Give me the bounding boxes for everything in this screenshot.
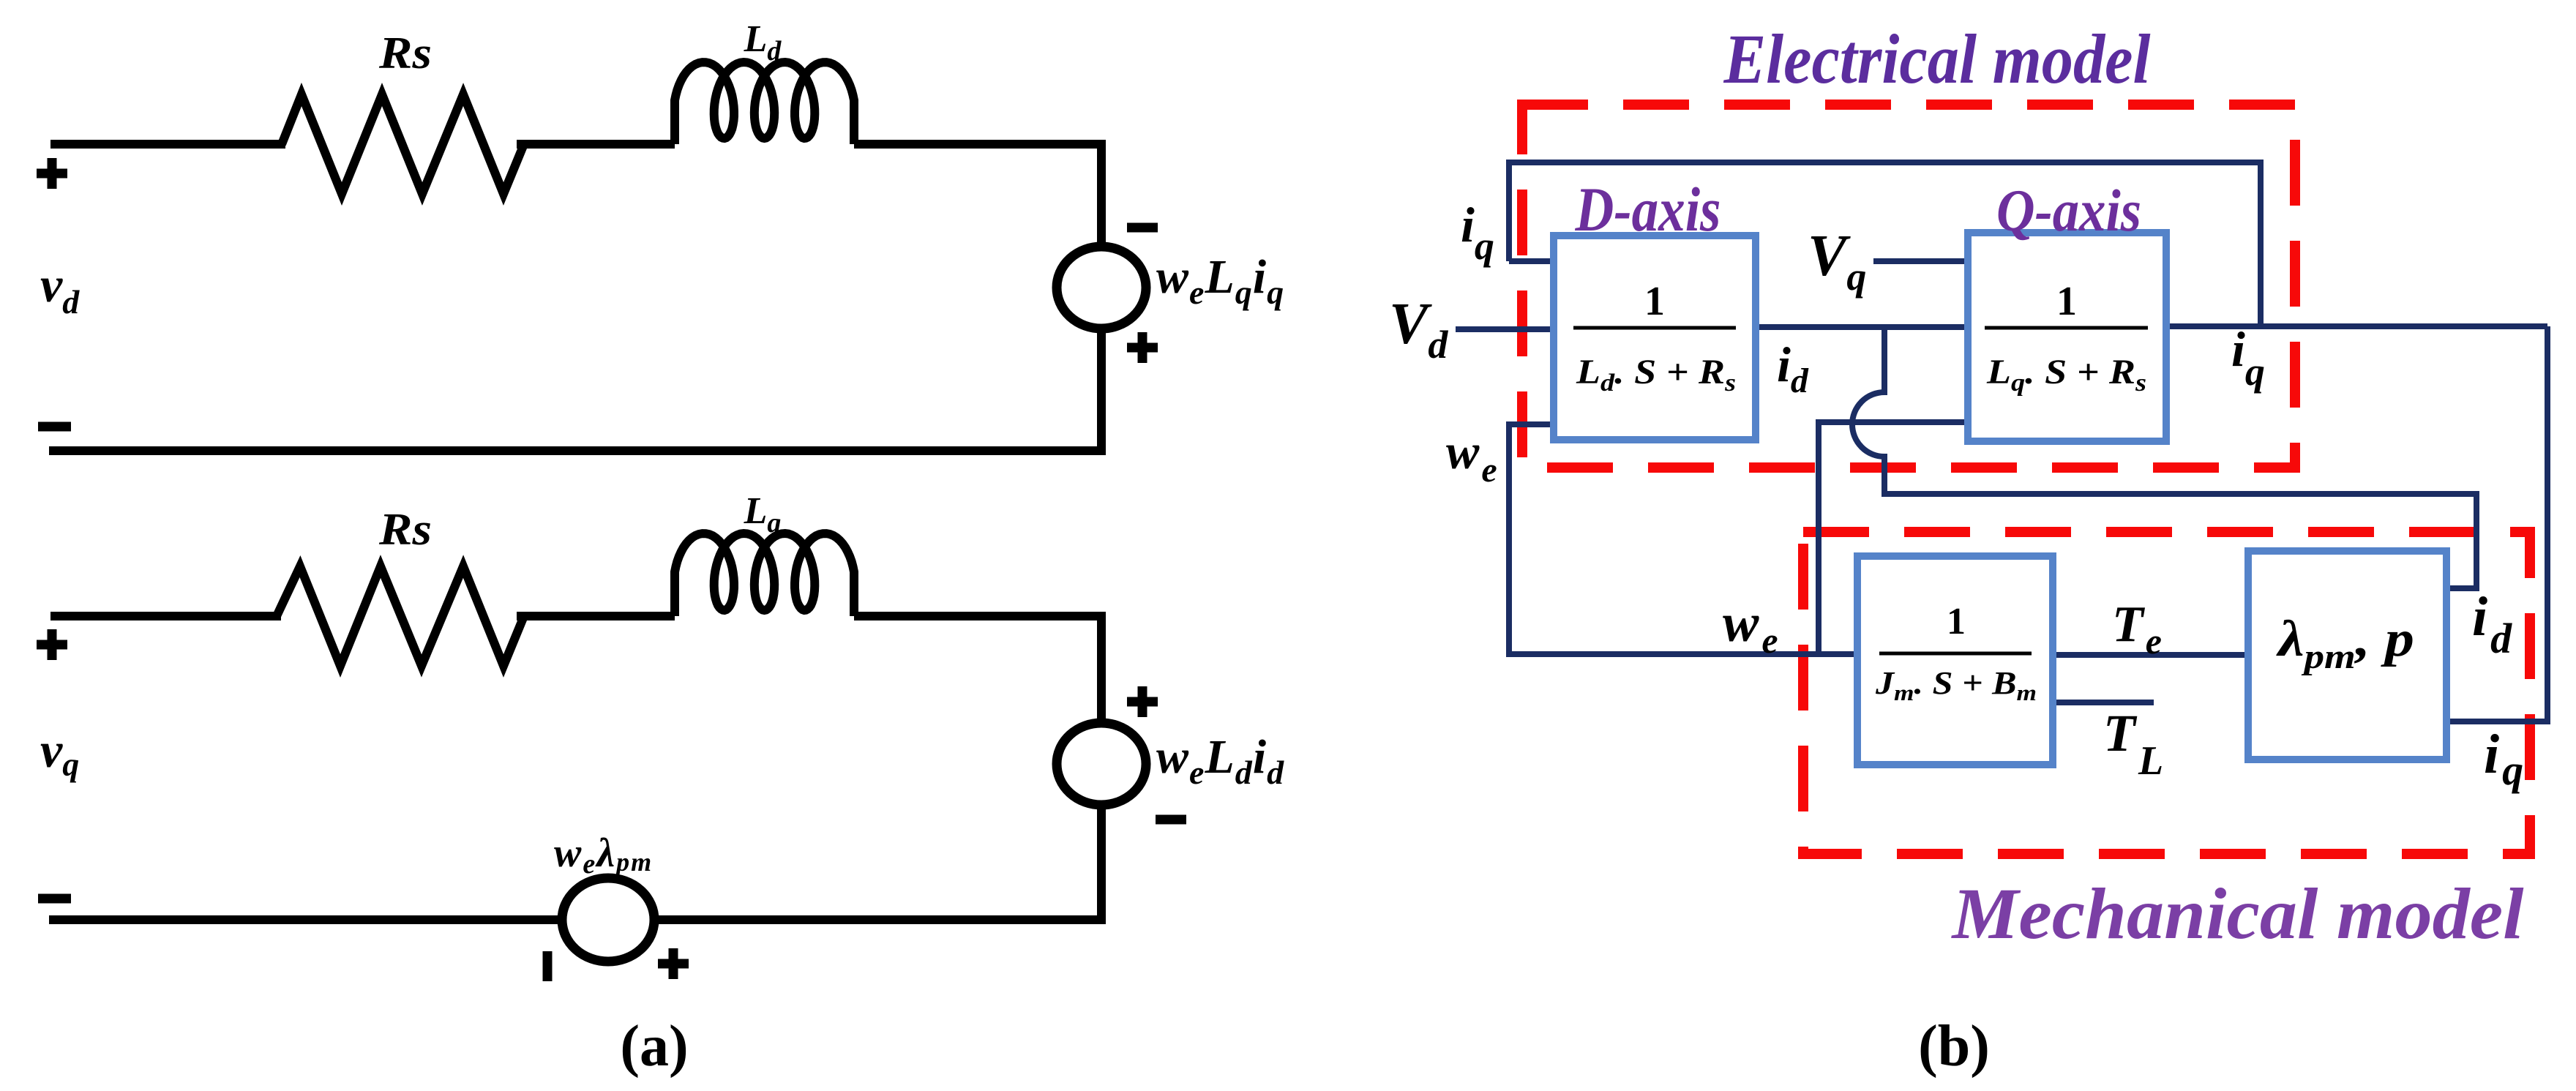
plus terminal vd: [37, 158, 67, 189]
plus terminal vq: [37, 629, 67, 660]
wire inductor to source q, right vertical: [854, 616, 1101, 723]
svg-text:1: 1: [1947, 601, 1966, 642]
svg-text:(a): (a): [620, 1014, 688, 1079]
wire source to bottom, bottom wire d-axis: [49, 329, 1101, 451]
plus below source: [1127, 332, 1158, 363]
wire top-left d-axis: [50, 140, 285, 149]
wire we trunk from J output to D box: [1509, 424, 1858, 654]
wire iq output Q: [2166, 323, 2547, 329]
wire resistor to inductor q: [517, 612, 675, 621]
resistor Rs (q-axis): [277, 566, 524, 666]
source we lambda_pm: [562, 878, 654, 961]
wire Vd input: [1456, 326, 1554, 332]
svg-text:1: 1: [2056, 279, 2077, 324]
minus terminal vd: [38, 422, 71, 432]
Q-axis block: [1968, 233, 2166, 441]
wire top-left q-axis: [50, 612, 281, 621]
svg-text:weLdid: weLdid: [1156, 730, 1284, 791]
svg-text:Q-axis: Q-axis: [1996, 177, 2141, 244]
minus terminal vq: [38, 894, 71, 904]
minus above source: [1127, 223, 1158, 233]
svg-text:D-axis: D-axis: [1575, 174, 1721, 244]
D-axis block: [1554, 236, 1756, 440]
plus right of lambda source: [658, 948, 689, 979]
wire source to bottom q: [654, 805, 1101, 920]
wire Vq input: [1873, 258, 1968, 264]
source we Lq iq: [1057, 247, 1146, 329]
mechanical model dashed box: [1803, 532, 2530, 854]
inductor Ld: [675, 62, 854, 144]
minus below source weLdid: [1156, 815, 1186, 825]
electrical model dashed box: [1522, 105, 2295, 468]
source we Ld id: [1057, 723, 1146, 805]
wire iq stub into D box: [1509, 258, 1554, 264]
inductor Lq: [675, 533, 854, 616]
svg-text:(b): (b): [1918, 1014, 1990, 1079]
svg-text:1: 1: [1644, 279, 1665, 324]
J block: [1857, 556, 2053, 765]
wire we branch up into Q box: [1819, 422, 1968, 654]
wire TL stub: [2053, 700, 2154, 705]
wire iq feedback right down into lambda box: [2446, 326, 2547, 721]
wire id output D to Q: [1756, 324, 1968, 330]
plus above source weLdid: [1127, 686, 1158, 717]
svg-text:Rs: Rs: [378, 29, 432, 78]
lambda block: [2248, 551, 2446, 760]
svg-text:Mechanical model: Mechanical model: [1950, 873, 2523, 954]
svg-text:Lq. S + Rs: Lq. S + Rs: [1986, 353, 2146, 397]
wire resistor to inductor: [517, 140, 675, 149]
svg-text:Rs: Rs: [378, 505, 432, 555]
minus bar left of lambda source: [543, 951, 553, 981]
resistor Rs (d-axis): [282, 94, 524, 194]
wire Te lambda to J: [2053, 652, 2248, 658]
svg-text:Electrical model: Electrical model: [1723, 20, 2151, 98]
wire id feedback with hop: [1852, 327, 2476, 588]
wire iq feedback top: [1509, 162, 2261, 326]
svg-text:Ld. S + Rs: Ld. S + Rs: [1576, 353, 1736, 397]
bottom wire q left part: [49, 915, 562, 924]
wire inductor to source, right vertical: [854, 144, 1101, 247]
svg-text:weLqiq: weLqiq: [1156, 250, 1284, 311]
